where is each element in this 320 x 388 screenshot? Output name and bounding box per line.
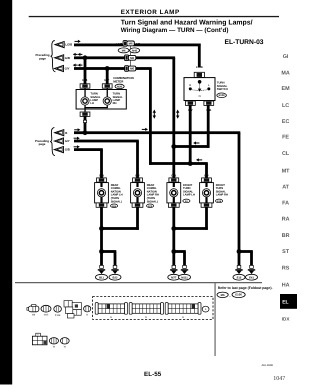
svg-text:1047: 1047 <box>273 376 285 382</box>
ground G3 front LH <box>168 265 180 280</box>
junction front ground split <box>171 249 176 254</box>
wire row3 G/Y right segment <box>136 67 152 70</box>
svg-text:GI: GI <box>283 54 289 60</box>
wire row5 G/Y run <box>74 140 139 143</box>
wire B ground left drop <box>238 252 241 266</box>
svg-text:LAMP RH: LAMP RH <box>216 194 228 197</box>
wire switch G/B down <box>207 105 210 147</box>
svg-text:M45: M45 <box>44 313 49 316</box>
svg-text:G/B: G/B <box>82 78 87 82</box>
connector face C1 <box>27 305 39 317</box>
wire row6 G/B run <box>74 148 103 151</box>
combination meter box U1 <box>76 90 126 110</box>
meter ground terminal <box>80 112 90 116</box>
wire row4 B run <box>74 131 240 134</box>
rear combination lamp LH <box>95 178 123 208</box>
page connector triangle row1 <box>55 42 64 48</box>
meter terminal G/Y <box>102 84 112 88</box>
wire front RH to LH ground join <box>174 227 208 230</box>
svg-text:Turn Signal and Hazard Warning: Turn Signal and Hazard Warning Lamps/ <box>121 19 253 26</box>
svg-text:AT: AT <box>282 184 289 190</box>
svg-text:MT: MT <box>282 168 290 174</box>
connector face C5 <box>84 306 91 317</box>
junction row3 to meter <box>105 66 110 71</box>
svg-text:E41: E41 <box>249 276 254 279</box>
wire rear ground branch <box>102 250 117 253</box>
svg-text:LG/B: LG/B <box>196 65 203 69</box>
connector ref oval M45 <box>130 48 140 53</box>
ground G6 body right <box>246 265 258 280</box>
svg-text:EM: EM <box>282 86 291 92</box>
wire front RH lamp ground drop <box>205 207 208 230</box>
combination meter connector oval M26 <box>115 84 124 88</box>
wire row1 LG/B right segment <box>133 44 200 47</box>
connector ref oval M6 <box>118 48 129 53</box>
switch terminal G/B <box>204 101 214 105</box>
direction arrows row2 <box>73 53 83 56</box>
rear combination lamp RH <box>131 178 159 208</box>
meter terminal G/B <box>80 84 90 88</box>
ground G2 rear RH <box>109 265 121 280</box>
strip end oval <box>202 306 209 312</box>
svg-text:LC: LC <box>282 103 289 109</box>
direction arrow on G/Y run <box>196 158 202 161</box>
wire G/B drop to meter <box>84 58 87 84</box>
direction arrow row6 <box>74 145 80 148</box>
wire row1 LG/B left segment <box>74 44 124 47</box>
connector face cluster C4 <box>64 301 81 318</box>
svg-text:G/Y: G/Y <box>204 173 209 177</box>
wire B ground branch drop <box>250 252 253 266</box>
svg-text:Refer to last page (Foldout pa: Refer to last page (Foldout page). <box>218 286 273 290</box>
svg-text:M6: M6 <box>130 56 134 60</box>
svg-text:IDX: IDX <box>282 316 291 321</box>
svg-text:page: page <box>39 142 46 146</box>
svg-text:G/B: G/B <box>65 56 70 60</box>
connector face C6 <box>32 333 47 345</box>
direction arrow row4 a <box>74 128 80 131</box>
header underline rule <box>29 16 279 17</box>
svg-text:G/B: G/B <box>65 148 70 152</box>
wire meter ground drop <box>84 116 87 132</box>
meter turn signal lamp LH bulb <box>81 97 89 105</box>
SMJ strip 3 <box>165 303 201 319</box>
switch internals <box>189 79 211 98</box>
page binder black edge <box>0 0 12 385</box>
direction arrow on G/B run <box>193 141 199 144</box>
front turn signal lamp LH <box>167 178 195 207</box>
svg-text:G/Y: G/Y <box>118 68 123 71</box>
wire rear ground branch drop <box>114 252 117 266</box>
svg-text:BR: BR <box>282 233 290 239</box>
svg-text:EL-TURN-03: EL-TURN-03 <box>225 39 264 46</box>
wire front ground branch <box>174 250 186 253</box>
junction rear lamps grounds <box>99 226 104 231</box>
svg-text:LAMP LH: LAMP LH <box>183 194 195 197</box>
SMJ strip 2 <box>129 303 163 319</box>
preceding page brace group 2 <box>50 128 55 156</box>
connector face C2 <box>41 305 51 316</box>
page connector triangle row2 <box>55 55 64 61</box>
meter internal wiring <box>84 88 108 112</box>
wire switch terminal stub <box>199 77 200 79</box>
meter lamp RH caption <box>113 93 124 106</box>
svg-text:B: B <box>65 131 67 135</box>
svg-text:M6: M6 <box>130 67 134 71</box>
svg-text:M6: M6 <box>221 293 225 297</box>
direction arrow row4 b <box>142 128 148 131</box>
svg-text:SWITCH: SWITCH <box>217 87 228 91</box>
svg-text:LG/B: LG/B <box>65 43 72 47</box>
svg-text:EL: EL <box>282 300 288 306</box>
svg-text:METER: METER <box>113 80 124 84</box>
harness link line between inline connectors <box>129 45 132 69</box>
turn signal switch box S1 <box>184 78 215 101</box>
svg-text:CL: CL <box>282 151 290 157</box>
dashed connector key box <box>93 297 213 320</box>
svg-text:RS: RS <box>282 266 290 272</box>
junction G/Y run with switch G/Y <box>188 161 193 166</box>
wire G/Y to front RH lamp <box>205 164 208 178</box>
svg-text:E106: E106 <box>235 293 242 297</box>
svg-text:G/Y: G/Y <box>135 173 140 177</box>
wire row5 down to rear RH lamp <box>136 141 139 178</box>
wire G/B vertical from row2 <box>172 58 175 178</box>
wire switch G/Y down <box>189 105 192 164</box>
svg-text:E108: E108 <box>55 314 61 317</box>
refer connector oval E106 ref <box>232 292 245 298</box>
front turn signal lamp RH <box>200 178 228 207</box>
svg-text:M26: M26 <box>117 85 123 88</box>
direction arrow row1 <box>75 40 81 43</box>
svg-text:M6: M6 <box>129 42 133 46</box>
svg-text:page: page <box>39 56 46 60</box>
wire G/Y vertical from row3 <box>149 69 152 165</box>
junction front lamps grounds <box>171 226 176 231</box>
svg-text:RH: RH <box>113 102 117 105</box>
svg-text:N: N <box>199 94 201 98</box>
svg-text:M6: M6 <box>122 49 126 52</box>
direction arrow row5 <box>74 137 80 140</box>
svg-text:E108: E108 <box>219 94 226 97</box>
SMJ strip 1 <box>95 303 127 319</box>
wire row3 G/Y left segment <box>74 67 126 70</box>
svg-text:G/B: G/B <box>171 173 176 177</box>
svg-text:ST: ST <box>282 249 290 255</box>
turn signal switch caption <box>217 81 228 91</box>
wire front ground branch drop <box>183 252 186 266</box>
svg-text:EC: EC <box>282 119 290 125</box>
wire G/Y cross run <box>149 162 208 165</box>
svg-text:M77: M77 <box>171 276 177 279</box>
svg-text:B11: B11 <box>99 276 104 279</box>
inline connector row2 M6 <box>125 55 136 61</box>
ground G5 body left <box>233 265 245 280</box>
direction arrows row3 <box>73 64 83 67</box>
page connector triangle row3 <box>54 65 63 71</box>
wire switch G/B left run <box>173 145 210 148</box>
svg-text:E15: E15 <box>237 276 242 279</box>
connector face C7 <box>49 338 58 349</box>
svg-text:RA: RA <box>282 216 290 222</box>
connector face C3 <box>54 306 62 317</box>
connector face C8 <box>60 338 69 349</box>
inline connector row1 M6 <box>123 41 134 47</box>
wire row2 G/B left segment <box>74 56 126 59</box>
separator rule above connector key <box>15 282 262 283</box>
wire rear RH lamp ground drop <box>136 207 139 230</box>
switch terminal G/Y <box>186 101 196 105</box>
svg-text:G/Y: G/Y <box>104 78 109 82</box>
svg-text:MA: MA <box>281 71 289 77</box>
wire rear RH to LH ground join <box>102 227 139 230</box>
flow marker on G/Y vertical <box>153 110 156 119</box>
page connector triangle row5 <box>54 138 63 144</box>
section tab EL highlighted <box>280 294 297 309</box>
svg-text:Wiring Diagram — TURN — (Cont’: Wiring Diagram — TURN — (Cont’d) <box>121 27 229 34</box>
svg-text:EXTERIOR LAMP: EXTERIOR LAMP <box>121 9 180 16</box>
svg-text:B22: B22 <box>113 276 118 279</box>
ground G1 rear LH <box>96 265 108 280</box>
svg-text:M45: M45 <box>132 49 138 52</box>
wire row4 B down right side <box>238 133 241 252</box>
svg-text:G/Y: G/Y <box>65 139 70 143</box>
refer box left border <box>214 283 217 356</box>
junction rear ground split <box>99 249 104 254</box>
page connector triangle row4 <box>55 130 64 136</box>
wire LG/B drop to turn signal switch <box>198 44 201 67</box>
flow marker on G/B vertical <box>176 110 179 119</box>
ground G4 front RH <box>179 265 191 280</box>
svg-text:SIGNAL): SIGNAL) <box>111 200 122 203</box>
svg-text:HA: HA <box>282 283 290 289</box>
svg-text:AEL160B: AEL160B <box>262 364 274 367</box>
wire G/Y drop to meter <box>106 69 109 84</box>
junction row2 to meter <box>83 55 88 60</box>
meter lamp LH caption <box>90 93 101 106</box>
switch connector oval E108 <box>217 93 227 98</box>
wire row2 G/B right segment <box>136 56 175 59</box>
meter turn signal lamp RH bulb <box>103 97 111 105</box>
switch terminal 1 <box>194 72 204 77</box>
junction row4 with meter ground <box>83 130 88 135</box>
svg-text:G/B: G/B <box>138 57 143 60</box>
refer connector oval M6 ref <box>217 292 228 297</box>
svg-text:LG/B: LG/B <box>116 43 122 46</box>
junction G/B run with front LH feed <box>171 144 176 149</box>
svg-text:M111: M111 <box>181 276 188 279</box>
inline connector row3 M6 <box>125 66 136 72</box>
svg-text:G/B: G/B <box>99 173 104 177</box>
wire front LH lamp ground <box>172 207 175 265</box>
svg-text:LH: LH <box>90 102 94 105</box>
wire rear LH lamp ground <box>100 207 103 265</box>
svg-text:G/Y: G/Y <box>138 68 143 71</box>
svg-text:EL-55: EL-55 <box>144 371 162 378</box>
preceding page brace group 1 <box>51 41 56 72</box>
wire row6 down to rear LH lamp <box>100 150 103 178</box>
svg-text:FE: FE <box>282 135 289 141</box>
svg-text:FA: FA <box>282 201 289 207</box>
junction B wire ground split <box>237 249 242 254</box>
wire B ground branch <box>239 250 253 253</box>
svg-text:LG/B: LG/B <box>134 43 140 46</box>
splice marker on meter ground wire <box>83 120 86 122</box>
svg-text:G/B: G/B <box>118 57 123 60</box>
page connector triangle row6 <box>54 147 63 153</box>
svg-text:G/Y: G/Y <box>65 67 70 71</box>
svg-text:SIGNAL): SIGNAL) <box>147 200 158 203</box>
svg-text:,: , <box>230 294 231 298</box>
